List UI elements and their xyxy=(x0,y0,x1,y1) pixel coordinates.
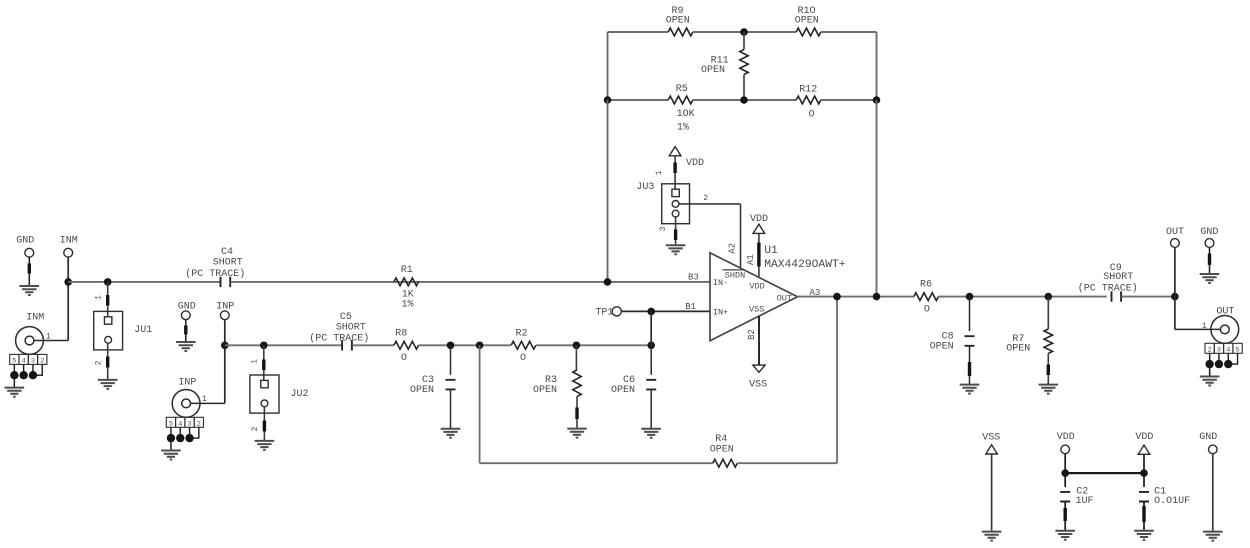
node xyxy=(104,278,112,286)
wire xyxy=(479,345,481,463)
svg-text:1: 1 xyxy=(46,333,51,342)
svg-text:1OK: 1OK xyxy=(677,109,695,120)
wire xyxy=(352,344,394,346)
wire xyxy=(1121,296,1175,298)
svg-text:(PC TRACE): (PC TRACE) xyxy=(309,333,369,345)
node xyxy=(604,278,612,286)
svg-text:JU2: JU2 xyxy=(291,389,309,400)
wire xyxy=(621,310,710,312)
resistor R5 xyxy=(668,96,693,104)
svg-text:GND: GND xyxy=(16,236,34,247)
svg-text:SHORT: SHORT xyxy=(1103,272,1133,283)
power VDD xyxy=(669,147,681,156)
svg-text:2: 2 xyxy=(94,360,103,365)
jumper JU2 xyxy=(263,345,265,380)
svg-text:R4: R4 xyxy=(715,434,727,445)
svg-text:2: 2 xyxy=(40,357,44,365)
node xyxy=(64,278,72,286)
node xyxy=(647,342,655,350)
svg-text:O: O xyxy=(401,353,407,364)
svg-text:3: 3 xyxy=(1217,346,1221,354)
svg-text:INM: INM xyxy=(26,312,44,323)
jumper JU3 xyxy=(662,184,690,224)
svg-text:GND: GND xyxy=(1199,432,1217,443)
wire xyxy=(225,344,342,346)
svg-text:VDD: VDD xyxy=(749,282,764,292)
svg-text:1: 1 xyxy=(94,295,103,300)
wire xyxy=(740,204,742,268)
svg-text:2: 2 xyxy=(251,426,260,431)
svg-text:OPEN: OPEN xyxy=(410,385,434,396)
svg-text:C4: C4 xyxy=(221,247,233,258)
wire xyxy=(758,233,760,277)
svg-text:GND: GND xyxy=(1200,227,1218,238)
node xyxy=(647,308,655,316)
ground xyxy=(176,342,196,351)
wire xyxy=(68,281,220,283)
wire xyxy=(821,31,877,33)
node xyxy=(873,96,881,104)
svg-text:(PC TRACE): (PC TRACE) xyxy=(185,268,245,280)
ground xyxy=(567,429,587,438)
svg-text:OPEN: OPEN xyxy=(611,385,635,396)
wire xyxy=(480,462,713,464)
svg-text:R2: R2 xyxy=(515,328,527,339)
node xyxy=(604,96,612,104)
svg-text:OPEN: OPEN xyxy=(930,342,954,353)
svg-text:1UF: 1UF xyxy=(1076,496,1094,507)
svg-text:OPEN: OPEN xyxy=(666,16,690,27)
node xyxy=(447,342,455,350)
node xyxy=(221,342,229,350)
wire xyxy=(607,100,609,282)
capacitor C1 xyxy=(1143,473,1145,487)
svg-text:1: 1 xyxy=(655,170,664,175)
capacitor C4 xyxy=(221,277,231,287)
ground xyxy=(1055,531,1075,540)
svg-text:VSS: VSS xyxy=(749,380,767,391)
wire xyxy=(607,32,609,100)
svg-text:5: 5 xyxy=(12,357,16,365)
power VSS xyxy=(758,316,760,365)
wire xyxy=(608,99,669,101)
ground xyxy=(1039,385,1059,394)
resistor R9 xyxy=(668,28,693,36)
svg-text:B3: B3 xyxy=(688,273,699,283)
wire xyxy=(608,31,669,33)
ground xyxy=(641,429,661,438)
svg-text:VDD: VDD xyxy=(1057,432,1075,443)
svg-text:OUT: OUT xyxy=(1166,227,1184,238)
wire xyxy=(679,203,740,205)
wire xyxy=(231,281,710,283)
svg-text:R6: R6 xyxy=(920,279,932,290)
wire xyxy=(876,32,878,100)
resistor R7 xyxy=(1047,297,1049,329)
resistor R12 xyxy=(796,96,821,104)
node xyxy=(740,96,748,104)
svg-text:TP1: TP1 xyxy=(595,308,613,319)
svg-text:VSS: VSS xyxy=(749,305,764,315)
wire xyxy=(67,257,69,340)
wire xyxy=(34,340,68,342)
ground xyxy=(960,385,980,394)
wire xyxy=(737,462,837,464)
svg-text:1%: 1% xyxy=(677,123,689,134)
wire xyxy=(191,402,225,404)
svg-text:2: 2 xyxy=(197,420,201,428)
ground xyxy=(98,380,118,389)
node xyxy=(873,293,881,301)
ground xyxy=(20,286,40,295)
svg-text:(PC TRACE): (PC TRACE) xyxy=(1078,282,1138,294)
svg-text:IN-: IN- xyxy=(713,278,728,288)
wire xyxy=(821,99,877,101)
node xyxy=(740,28,748,36)
node xyxy=(1140,469,1148,477)
node xyxy=(260,342,268,350)
wire xyxy=(1174,247,1176,296)
svg-text:4: 4 xyxy=(22,357,26,365)
svg-text:VSS: VSS xyxy=(982,433,1000,444)
node xyxy=(833,293,841,301)
jumper JU1 xyxy=(107,282,109,317)
svg-text:JU1: JU1 xyxy=(134,325,152,336)
ground xyxy=(982,532,1002,541)
svg-text:3: 3 xyxy=(188,420,192,428)
svg-text:SHORT: SHORT xyxy=(336,323,366,334)
capacitor C2 xyxy=(1064,473,1066,487)
svg-text:OUT: OUT xyxy=(777,294,792,304)
svg-text:OPEN: OPEN xyxy=(533,385,557,396)
wire xyxy=(693,31,796,33)
resistor R11 xyxy=(743,32,745,50)
wire xyxy=(1174,297,1176,330)
svg-text:1: 1 xyxy=(202,395,207,404)
wire xyxy=(836,297,838,464)
svg-text:1: 1 xyxy=(1202,322,1207,331)
wire xyxy=(798,296,914,298)
capacitor C8 xyxy=(969,297,971,332)
node xyxy=(966,293,974,301)
ground xyxy=(441,429,461,438)
capacitor C3 xyxy=(450,345,452,375)
svg-text:R8: R8 xyxy=(395,328,407,339)
svg-text:O: O xyxy=(924,304,930,315)
svg-text:1%: 1% xyxy=(402,300,414,311)
svg-text:2: 2 xyxy=(703,194,708,203)
resistor R10 xyxy=(796,28,821,36)
svg-text:1: 1 xyxy=(250,359,259,364)
wire xyxy=(693,99,796,101)
wire xyxy=(938,296,1106,298)
resistor R2 xyxy=(511,341,536,349)
capacitor C9 xyxy=(1112,291,1122,301)
ground xyxy=(1134,531,1154,540)
wire xyxy=(224,320,226,404)
svg-text:JU3: JU3 xyxy=(636,182,654,193)
svg-text:5: 5 xyxy=(169,420,173,428)
wire xyxy=(674,156,676,189)
svg-text:3: 3 xyxy=(659,226,668,231)
svg-text:U1: U1 xyxy=(764,245,778,257)
svg-text:VDD: VDD xyxy=(1135,432,1153,443)
wire xyxy=(650,311,652,345)
svg-text:2: 2 xyxy=(1208,346,1212,354)
svg-text:MAX4429OAWT+: MAX4429OAWT+ xyxy=(764,259,846,271)
node xyxy=(476,342,484,350)
resistor R6 xyxy=(914,293,939,301)
svg-text:R5: R5 xyxy=(676,84,688,95)
svg-text:B1: B1 xyxy=(685,302,696,312)
node xyxy=(1171,293,1179,301)
wire xyxy=(675,217,677,245)
svg-text:B2: B2 xyxy=(747,329,757,340)
svg-text:R1: R1 xyxy=(401,265,413,276)
node xyxy=(573,342,581,350)
ground xyxy=(666,245,686,254)
svg-text:OPEN: OPEN xyxy=(701,65,725,76)
svg-text:A1: A1 xyxy=(746,254,756,265)
svg-text:4: 4 xyxy=(178,420,182,428)
resistor R8 xyxy=(394,341,419,349)
svg-text:OPEN: OPEN xyxy=(710,445,734,456)
resistor R1 xyxy=(394,278,419,286)
svg-text:INM: INM xyxy=(60,236,78,247)
svg-text:C5: C5 xyxy=(340,312,352,323)
svg-text:VDD: VDD xyxy=(686,158,704,169)
wire xyxy=(876,100,878,297)
capacitor C6 xyxy=(650,345,652,375)
svg-text:3: 3 xyxy=(31,357,35,365)
svg-text:5: 5 xyxy=(1236,346,1240,354)
svg-text:INP: INP xyxy=(178,377,196,388)
svg-text:IN+: IN+ xyxy=(713,308,728,318)
ground xyxy=(255,441,275,450)
resistor R4 xyxy=(713,459,738,467)
node xyxy=(1061,469,1069,477)
svg-text:SHORT: SHORT xyxy=(213,258,243,269)
svg-text:OPEN: OPEN xyxy=(795,16,819,27)
resistor R3 xyxy=(575,345,577,370)
node xyxy=(1045,293,1053,301)
svg-text:O.O1UF: O.O1UF xyxy=(1154,496,1190,507)
capacitor C5 xyxy=(342,340,352,350)
ground xyxy=(1203,532,1223,541)
svg-text:R12: R12 xyxy=(799,85,817,96)
wire xyxy=(419,344,512,346)
svg-text:OPEN: OPEN xyxy=(1006,344,1030,355)
wire xyxy=(1065,472,1144,474)
svg-text:O: O xyxy=(520,353,526,364)
svg-text:O: O xyxy=(809,109,815,120)
svg-text:A2: A2 xyxy=(728,243,738,254)
ground xyxy=(1200,274,1220,283)
wire xyxy=(536,344,651,346)
svg-text:4: 4 xyxy=(1226,346,1230,354)
op-amp U1 MAX44290AWT+ xyxy=(710,253,798,341)
